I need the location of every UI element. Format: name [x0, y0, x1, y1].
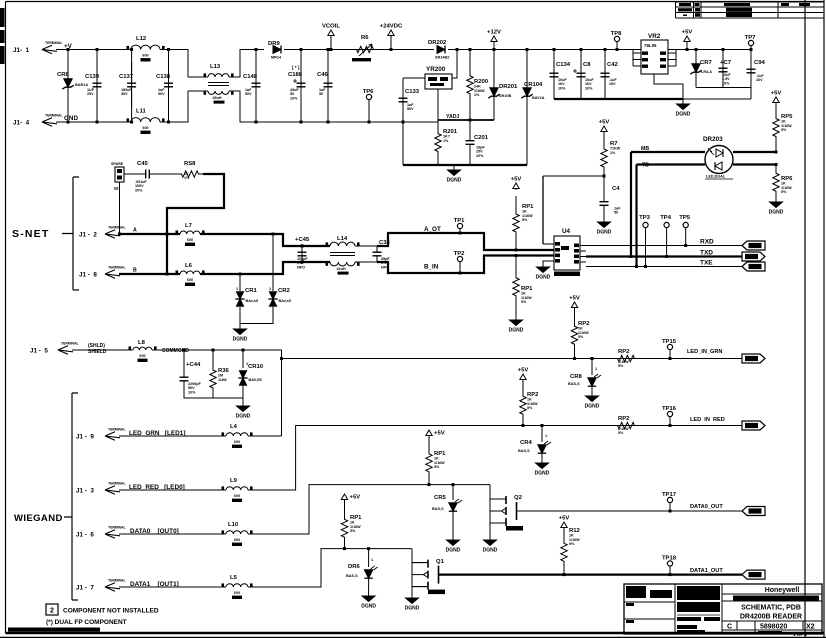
wire shield [72, 349, 133, 351]
svg-text:DR6: DR6 [348, 564, 361, 570]
wire C45 to RS8 [156, 173, 177, 175]
wire DATA0_OUT [517, 510, 743, 512]
junction [775, 151, 778, 154]
resistor RP1b [513, 256, 533, 319]
wire LED_RED to riser [248, 426, 742, 491]
junction [130, 48, 133, 51]
wire CR4 branch [541, 426, 543, 443]
junction [272, 233, 275, 236]
svg-text:DGND: DGND [769, 210, 784, 216]
junction [456, 48, 459, 51]
svg-text:DR203: DR203 [703, 136, 723, 143]
junction [368, 121, 371, 124]
ground DGND CR4 [535, 453, 550, 477]
svg-text:600: 600 [234, 591, 240, 595]
svg-text:600: 600 [234, 440, 240, 444]
svg-text:20%: 20% [135, 188, 143, 192]
junction [67, 121, 70, 124]
junction [665, 255, 668, 258]
zener diode CR104 [521, 82, 544, 100]
svg-text:J1 - 7: J1 - 7 [76, 585, 94, 592]
ground DGND CR8b [585, 386, 600, 410]
svg-text:BAY2A: BAY2A [532, 96, 545, 100]
svg-text:1: 1 [246, 362, 248, 366]
wire LED_GRN to riser [248, 435, 282, 437]
node B [133, 268, 137, 274]
wire +24V rail [284, 49, 434, 51]
svg-text:DR9: DR9 [268, 41, 281, 47]
svg-text:+C7: +C7 [720, 60, 732, 66]
svg-text:TP16: TP16 [662, 406, 677, 412]
wire DATA1 to riser [248, 549, 412, 587]
tag TXE [742, 262, 765, 271]
wire YR200 out [452, 50, 457, 79]
capacitor C201 [466, 120, 489, 165]
svg-text:BAV,S5: BAV,S5 [249, 378, 262, 382]
wire C188 branch [300, 50, 302, 123]
junction [591, 357, 594, 360]
svg-text:MR14: MR14 [271, 56, 282, 60]
svg-text:TP3: TP3 [639, 215, 651, 221]
junction [327, 121, 330, 124]
junction [686, 48, 689, 51]
node +V [64, 43, 73, 50]
junction [130, 121, 133, 124]
junction [402, 121, 405, 124]
inductor L4 [220, 424, 254, 448]
net DATA0 [130, 528, 179, 535]
svg-text:BAS,S: BAS,S [518, 449, 530, 453]
wire C7 branch [722, 50, 724, 88]
wire GND rail left [56, 121, 131, 123]
test point TP6 [363, 89, 375, 122]
capacitor C4 [600, 186, 622, 219]
wire CR8b branch [591, 359, 593, 376]
wire C46 branch [327, 50, 329, 123]
svg-text:TP2: TP2 [454, 251, 466, 257]
svg-text:L10: L10 [228, 522, 239, 528]
svg-text:L7: L7 [185, 223, 193, 229]
svg-text:DR202: DR202 [428, 40, 447, 46]
svg-text:J1- 1: J1- 1 [13, 47, 30, 54]
varistor R6 [348, 35, 382, 53]
svg-text:16V: 16V [609, 82, 616, 86]
svg-text:CR2: CR2 [278, 288, 291, 294]
svg-text:25V: 25V [87, 92, 94, 96]
svg-text:1: 1 [545, 434, 547, 438]
svg-text:+5V: +5V [350, 495, 361, 501]
svg-text:35V: 35V [121, 92, 128, 96]
svg-text:LED IN RED: LED IN RED [690, 417, 725, 423]
wire W1 to C45 [124, 173, 139, 175]
capacitor C139 [85, 62, 102, 108]
svg-text:5%: 5% [618, 431, 624, 435]
svg-text:16V: 16V [756, 78, 763, 82]
ground DGND regulator [447, 165, 462, 184]
power +5V RP1a [511, 177, 522, 191]
pin 1 CR4 [545, 434, 547, 438]
svg-text:R6: R6 [361, 35, 369, 41]
junction [183, 349, 186, 352]
wire YR200 in [403, 77, 425, 79]
wire DATA0 to riser [248, 485, 490, 534]
wire TXE [586, 266, 742, 268]
zener diode DR201 [488, 84, 518, 98]
net DATA0_OUT [690, 504, 723, 510]
net YADJ [438, 114, 494, 120]
svg-text:600: 600 [142, 54, 148, 58]
wire GND rail right [229, 91, 438, 122]
svg-text:C139: C139 [85, 74, 100, 80]
connector pin J1-3 [76, 482, 126, 495]
svg-text:600: 600 [142, 126, 148, 130]
test point TP18 [662, 555, 677, 574]
svg-text:TERMINAL: TERMINAL [108, 579, 126, 583]
ground DGND Q2 [483, 538, 498, 554]
svg-text:5%: 5% [350, 529, 356, 533]
junction [635, 265, 638, 268]
connector pin J1-1 [13, 41, 63, 54]
svg-text:LED,DUAL: LED,DUAL [706, 175, 726, 179]
svg-text:C: C [727, 624, 732, 631]
power +5V RP5 [771, 91, 782, 104]
junction [616, 48, 619, 51]
svg-text:X2: X2 [806, 624, 815, 631]
svg-text:10%: 10% [290, 96, 298, 100]
wire 5V out rail [668, 49, 751, 51]
wire DR201 branch [493, 50, 495, 121]
power +5V main [682, 30, 693, 50]
power +5V R12 [559, 516, 570, 531]
net LED_IN_RED [690, 417, 725, 423]
wire COMMGND [152, 350, 282, 436]
wire LED_GRN [119, 435, 226, 437]
wire C148 branch [255, 50, 257, 123]
transformer L14 [326, 236, 360, 275]
test point TP5 [679, 215, 691, 246]
junction [526, 48, 529, 51]
wire C45b branch [301, 246, 303, 262]
capacitor C138 [156, 62, 173, 108]
svg-text:J1 - 3: J1 - 3 [76, 488, 94, 495]
test point TP1 [454, 218, 466, 233]
jumper W1 SPARE [111, 162, 124, 191]
test point TP2 [454, 251, 466, 273]
svg-text:L13: L13 [210, 64, 221, 70]
svg-text:50: 50 [319, 92, 323, 96]
TVS diode CR2 [268, 288, 291, 306]
svg-text:L6: L6 [185, 263, 193, 269]
junction [301, 245, 304, 248]
power +24VDC [380, 24, 403, 50]
svg-text:600: 600 [187, 238, 193, 242]
junction [722, 48, 725, 51]
net TXD [700, 250, 713, 257]
junction [695, 48, 698, 51]
svg-text:TP7: TP7 [745, 35, 757, 41]
revision table [676, 2, 825, 18]
legend component not installed [46, 604, 159, 615]
svg-text:VCOIL: VCOIL [322, 24, 340, 30]
resistor R36 [210, 368, 230, 390]
svg-text:NPO: NPO [297, 265, 305, 269]
junction [301, 261, 304, 264]
svg-text:SPARE: SPARE [111, 162, 124, 166]
capacitor C45a [135, 161, 156, 192]
junction [239, 273, 242, 276]
svg-text:DR4200B READER: DR4200B READER [740, 614, 802, 621]
svg-text:COMPONENT NOT INSTALLED: COMPONENT NOT INSTALLED [63, 608, 159, 615]
wire +V rail left [56, 49, 131, 51]
power +5V RP1d [341, 494, 360, 508]
svg-text:TP17: TP17 [662, 492, 677, 498]
net COMMGND [162, 348, 189, 354]
bracket S-NET [62, 177, 79, 290]
test point TP15 [662, 339, 677, 359]
inductor L11 [125, 109, 166, 135]
svg-text:+5V: +5V [434, 431, 445, 437]
wire Q2 drain feed [489, 485, 491, 538]
wire shield gnd [184, 386, 243, 404]
capacitor C134 [550, 58, 571, 92]
svg-text:5%: 5% [618, 364, 624, 368]
capacitor C7 [719, 56, 732, 85]
connector pin J1-4 [13, 114, 63, 127]
junction [212, 349, 215, 352]
svg-text:+5V: +5V [569, 296, 580, 302]
svg-text:CR8: CR8 [570, 374, 583, 380]
connector pin J1-5 [30, 342, 79, 355]
junction [630, 255, 633, 258]
ground DGND CR5 [446, 511, 461, 554]
junction [493, 48, 496, 51]
wire C139 branch [96, 50, 98, 123]
power +5V RP1c [426, 430, 445, 441]
svg-text:RP2: RP2 [618, 349, 630, 355]
junction [280, 357, 283, 360]
svg-text:DATA0_OUT: DATA0_OUT [690, 504, 723, 510]
svg-text:J1- 4: J1- 4 [13, 120, 30, 127]
junction [522, 424, 525, 427]
svg-text:CR4: CR4 [520, 440, 533, 446]
wire gnd link [683, 88, 751, 100]
test point TP4 [660, 215, 672, 257]
svg-text:DGND: DGND [535, 471, 550, 477]
svg-text:B_IN: B_IN [424, 264, 439, 271]
wire +V rail to L13 [160, 50, 208, 78]
svg-text:1/4W: 1/4W [218, 378, 227, 382]
wire C44 branch [183, 350, 185, 371]
svg-text:L9: L9 [230, 478, 238, 484]
svg-text:GND: GND [64, 115, 78, 122]
svg-text:DGND: DGND [509, 328, 524, 334]
inductor L6 [174, 263, 206, 286]
junction [644, 265, 647, 268]
junction [669, 510, 672, 513]
svg-text:WIEGAND: WIEGAND [14, 513, 63, 524]
wire DATA0 [119, 533, 226, 535]
svg-text:DGND: DGND [585, 404, 600, 410]
wire CR1 CR2 gnd [240, 307, 273, 326]
title block [624, 584, 822, 634]
svg-text:BAS,S: BAS,S [432, 507, 444, 511]
net LED_GRN [129, 430, 185, 437]
pin 1 CR10 [246, 362, 248, 366]
net LED_IN_GRN [687, 349, 722, 355]
svg-text:(*) DUAL FP COMPONENT: (*) DUAL FP COMPONENT [46, 619, 127, 626]
svg-text:SCHEMATIC, PDB: SCHEMATIC, PDB [741, 605, 801, 612]
svg-text:50V: 50V [245, 92, 252, 96]
svg-text:LED_IN_GRN: LED_IN_GRN [687, 349, 722, 355]
svg-text:CR5: CR5 [434, 495, 447, 501]
junction [96, 48, 99, 51]
regulator YR200 [425, 66, 452, 89]
svg-text:+24VDC: +24VDC [380, 24, 403, 30]
svg-text:C4: C4 [612, 186, 620, 192]
inductor L7 [174, 223, 206, 246]
ground DGND DR6 [361, 578, 376, 610]
svg-text:+C45: +C45 [295, 237, 310, 243]
net TB [642, 163, 649, 169]
capacitor C137 [119, 62, 136, 108]
resistor RP5 [773, 103, 793, 152]
wire RXD [586, 245, 742, 247]
svg-text:5898020: 5898020 [760, 624, 787, 631]
title block honeywell [700, 587, 822, 637]
svg-text:DGND: DGND [361, 604, 376, 610]
wire TB [637, 165, 706, 267]
junction [553, 48, 556, 51]
svg-text:C94: C94 [754, 60, 766, 66]
junction [515, 254, 518, 257]
svg-text:+5V: +5V [599, 120, 610, 126]
wire C8 branch [580, 50, 582, 100]
svg-text:10%: 10% [188, 390, 196, 394]
junction [166, 273, 169, 276]
svg-text:TP6: TP6 [363, 89, 375, 95]
node GND [64, 115, 78, 122]
junction [166, 233, 169, 236]
svg-text:+5V: +5V [518, 368, 529, 374]
svg-text:BAR1A: BAR1A [75, 83, 88, 87]
svg-text:L4: L4 [230, 424, 238, 430]
diode DR9 [268, 41, 282, 60]
junction [255, 48, 258, 51]
svg-text:BAv,s5: BAv,s5 [279, 299, 291, 303]
inductor L9 [220, 478, 254, 502]
junction [327, 48, 330, 51]
svg-text:BAS,S: BAS,S [568, 382, 580, 386]
wire VR2 gnd [654, 74, 683, 99]
wire DGND rail 165 [403, 164, 527, 166]
inductor L8 [127, 340, 158, 362]
junction [580, 48, 583, 51]
capacitor C8 [573, 58, 594, 92]
capacitor C44 [180, 362, 202, 394]
net B_IN [424, 264, 439, 271]
wire MB [631, 152, 705, 257]
power +5V RP2b [518, 368, 529, 386]
junction [541, 424, 544, 427]
junction [750, 48, 753, 51]
wire R7 to C4 [603, 176, 605, 188]
wire C134 branch [553, 50, 555, 100]
transistor Q2 [490, 495, 523, 531]
transistor Q1 [412, 559, 445, 594]
wire L14 out bottom [355, 261, 377, 263]
resistor RP1a [513, 196, 534, 250]
junction [459, 272, 462, 275]
power +5V R7 [599, 120, 610, 141]
capacitor C45b [295, 237, 310, 269]
svg-text:5%: 5% [522, 218, 528, 222]
tag DATA0_OUT [742, 507, 765, 516]
junction [669, 573, 672, 576]
svg-text:DATA1_OUT: DATA1_OUT [690, 568, 723, 574]
wire LED_IN_GRN [282, 358, 743, 360]
svg-text:DGND: DGND [483, 548, 498, 554]
wire DGND rail caps [554, 98, 683, 100]
wire YR200 adj [437, 89, 439, 120]
svg-text:50: 50 [614, 211, 618, 215]
wire DATA1_OUT [439, 573, 743, 575]
resistor RP1d [341, 508, 362, 549]
legend notes [8, 628, 100, 633]
ground DGND RP6 [769, 200, 784, 216]
bracket WIEGAND [64, 393, 78, 600]
test point TP3 [639, 215, 651, 267]
svg-text:600: 600 [187, 278, 193, 282]
svg-text:+5V: +5V [682, 30, 693, 36]
svg-text:Honeywell: Honeywell [765, 587, 800, 594]
svg-text:BAS,S: BAS,S [346, 574, 358, 578]
LED clamp diode CR5 [432, 495, 462, 511]
wire A_OT [377, 233, 554, 250]
svg-text:VR2: VR2 [648, 33, 661, 40]
junction [67, 48, 70, 51]
net SHIELD [88, 343, 107, 355]
svg-text:BAv,s5: BAv,s5 [246, 299, 258, 303]
svg-text:TERMINAL: TERMINAL [108, 266, 126, 270]
wire CR10 branch [242, 350, 244, 368]
svg-text:DGND: DGND [676, 112, 691, 118]
net RXD [700, 239, 714, 246]
wire CR2 branch [272, 234, 274, 291]
net MB [641, 146, 649, 152]
wire DR203 right top [733, 151, 776, 153]
connector pin J1-2 [79, 226, 126, 239]
test point TP17 [662, 492, 677, 511]
svg-text:+12V: +12V [487, 30, 501, 36]
svg-text:5%: 5% [781, 128, 787, 132]
svg-text:1: 1 [269, 287, 271, 291]
svg-text:TP5: TP5 [679, 215, 691, 221]
junction [459, 232, 462, 235]
svg-text:+5V: +5V [559, 516, 570, 522]
wire Q1 drain feed [411, 549, 413, 596]
resistor RP1c [426, 441, 446, 485]
svg-text:1%: 1% [443, 139, 449, 143]
wire W1 to A [119, 182, 121, 234]
tag LED_IN_GRN [742, 354, 765, 363]
wire LED_RED [119, 489, 226, 491]
wire B [119, 262, 330, 274]
ground DGND shield [236, 404, 251, 420]
svg-text:TP8: TP8 [611, 31, 623, 37]
svg-text:RS8: RS8 [184, 161, 196, 167]
svg-text:TERMINAL: TERMINAL [45, 114, 63, 118]
junction [390, 48, 393, 51]
